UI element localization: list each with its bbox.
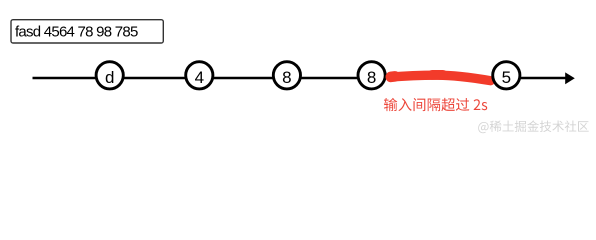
node 8a: [273, 62, 300, 89]
node 8b: [358, 62, 385, 89]
node 5: [493, 62, 520, 89]
red label: 输入间隔超过 2s: [384, 98, 487, 111]
node d: [96, 62, 123, 89]
svg-text:fasd 4564 78 98 785: fasd 4564 78 98 785: [15, 24, 138, 41]
watermark: @稀土掘金技术社区: [478, 120, 589, 133]
arrowhead: [565, 72, 575, 84]
red marker stroke: [391, 75, 491, 81]
svg-text:8: 8: [282, 68, 291, 87]
svg-text:5: 5: [502, 68, 511, 87]
node 4: [186, 62, 213, 89]
svg-text:8: 8: [367, 68, 376, 87]
timeline wire right segment: [506, 77, 567, 80]
timeline wire left segment: [33, 77, 374, 80]
svg-text:4: 4: [195, 68, 204, 87]
input box: [11, 20, 163, 43]
svg-text:d: d: [105, 68, 114, 87]
